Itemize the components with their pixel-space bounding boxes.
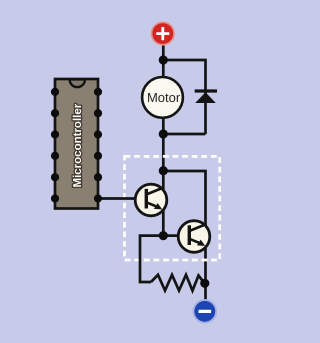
wire Q2 base lead (163, 234, 190, 237)
wire collector node branch to Q2 collector and down to minus terminal (163, 171, 205, 301)
positive supply terminal (151, 21, 175, 45)
diode anode triangle (195, 92, 216, 103)
negative supply terminal (193, 299, 218, 324)
junction node: Q1 emitter / Q2 base (159, 231, 168, 240)
svg-text:Microcontroller: Microcontroller (72, 103, 84, 187)
microcontroller U1 body (55, 79, 98, 209)
junction node: resistor right / Q2 emitter (200, 279, 209, 288)
negative terminal blue disc (194, 301, 215, 322)
motor M1 (142, 77, 183, 118)
microcontroller package body (55, 79, 98, 209)
junction node: Q1 collector (159, 166, 168, 175)
junction node: motor bottom (159, 129, 168, 138)
transistor Q2 (178, 221, 210, 253)
wire top branch to diode cathode (163, 60, 205, 134)
resistor R1 zigzag (151, 275, 205, 291)
wire main vertical bus from + terminal through motor to Q1 emitter node (162, 43, 165, 236)
Q1 base bar (145, 189, 148, 209)
Q2 emitter lead (189, 239, 202, 244)
microcontroller pin-1 notch (70, 79, 85, 87)
Q1 collector lead (146, 188, 163, 195)
wire Q1 emitter node to resistor left end (140, 236, 163, 282)
Q1 envelope circle (135, 184, 167, 216)
positive terminal halo (151, 21, 175, 45)
junction node: supply top (159, 55, 168, 64)
motor label (147, 90, 181, 105)
Q2 collector lead (189, 224, 206, 231)
wire microcontroller pin to Q1 base (98, 197, 148, 200)
negative terminal halo (193, 299, 218, 324)
Q2 base bar (188, 225, 191, 245)
Q1 emitter arrow (154, 203, 162, 209)
transistor Q1 (135, 184, 167, 216)
dashed driver box (125, 156, 220, 260)
Q1 emitter lead (146, 202, 159, 207)
Q2 envelope circle (178, 221, 210, 253)
Q2 emitter arrow (197, 240, 205, 246)
plus sign (156, 32, 169, 35)
motor body circle (142, 77, 183, 118)
positive terminal red disc (152, 23, 173, 44)
microcontroller label (72, 103, 84, 187)
diode D1 flyback (195, 91, 217, 103)
diode cathode bar (195, 89, 217, 92)
wire motor bottom to diode anode (163, 133, 205, 136)
svg-text:Motor: Motor (147, 90, 181, 105)
microcontroller right pins (94, 88, 102, 203)
minus sign (199, 310, 212, 313)
microcontroller left pins (51, 88, 59, 203)
